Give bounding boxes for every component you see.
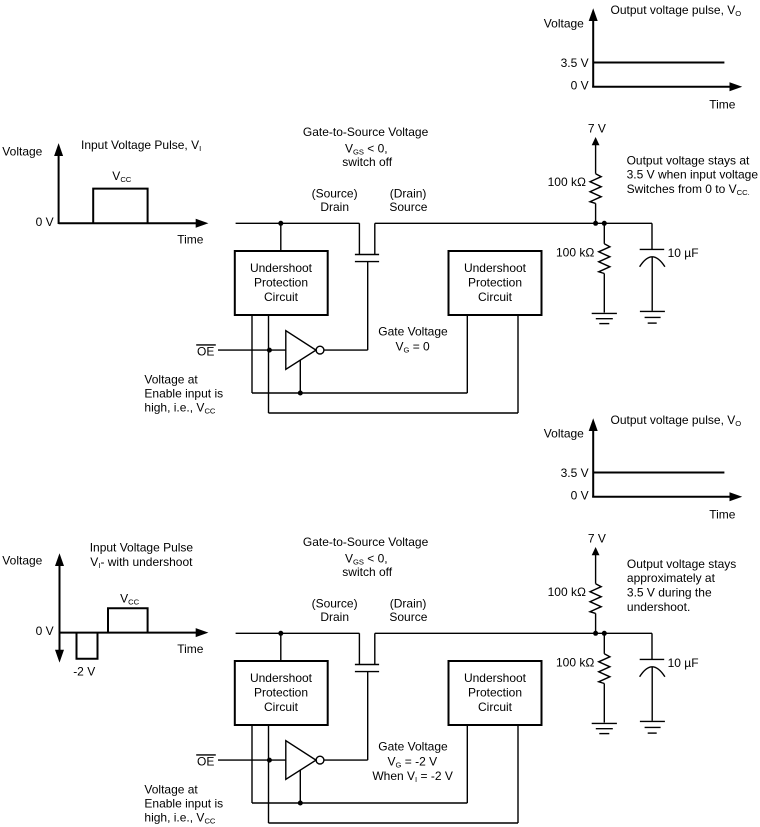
svg-text:When VI = -2 V: When VI = -2 V xyxy=(372,769,453,784)
svg-text:Voltage: Voltage xyxy=(2,554,42,568)
svg-text:undershoot.: undershoot. xyxy=(627,600,690,614)
svg-text:VG = -2 V: VG = -2 V xyxy=(387,755,437,770)
svg-text:Output voltage stays: Output voltage stays xyxy=(627,557,736,571)
svg-text:Input Voltage Pulse, VI: Input Voltage Pulse, VI xyxy=(81,138,201,153)
svg-text:0 V: 0 V xyxy=(36,624,54,638)
svg-text:Gate Voltage: Gate Voltage xyxy=(378,740,448,754)
svg-text:Time: Time xyxy=(177,233,204,247)
svg-text:3.5 V when input voltage: 3.5 V when input voltage xyxy=(627,168,759,182)
svg-text:VI- with undershoot: VI- with undershoot xyxy=(90,555,193,570)
svg-text:Switches from 0 to VCC.: Switches from 0 to VCC. xyxy=(627,182,750,197)
svg-text:3.5 V during the: 3.5 V during the xyxy=(627,586,712,600)
svg-text:Voltage: Voltage xyxy=(2,144,42,158)
svg-text:Input Voltage Pulse: Input Voltage Pulse xyxy=(90,540,194,554)
svg-text:VG = 0: VG = 0 xyxy=(395,340,430,355)
svg-text:0 V: 0 V xyxy=(36,215,54,229)
svg-text:Output voltage stays at: Output voltage stays at xyxy=(627,154,750,168)
svg-text:VCC: VCC xyxy=(120,591,139,606)
svg-text:-2 V: -2 V xyxy=(73,664,95,678)
svg-text:VCC: VCC xyxy=(112,169,131,184)
svg-text:Time: Time xyxy=(177,642,204,656)
svg-text:approximately at: approximately at xyxy=(627,571,716,585)
svg-text:Gate Voltage: Gate Voltage xyxy=(378,324,448,338)
